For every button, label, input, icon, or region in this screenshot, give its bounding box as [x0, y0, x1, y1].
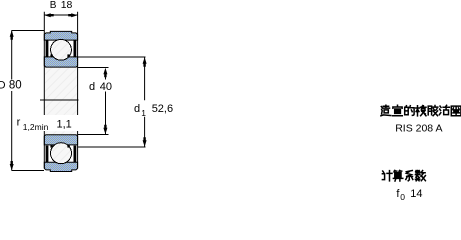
seal left bottom — [46, 146, 49, 163]
svg-text:D: D — [0, 80, 6, 92]
char 胶 — [428, 106, 438, 116]
svg-text:r: r — [17, 116, 21, 128]
outer ring top — [44, 31, 77, 40]
svg-text:14: 14 — [410, 188, 422, 200]
outer ring bottom — [44, 162, 77, 171]
char 系 — [406, 171, 413, 181]
chinese heading line 2: 计算系数 (drawn strokes) — [382, 170, 425, 181]
chinese heading line 1 (drawn strokes) — [381, 105, 461, 116]
dimension d1: top leader — [78, 56, 146, 58]
char 圈 (clipped at right edge) — [451, 106, 461, 116]
right face / bore silhouette line — [77, 12, 79, 168]
seal right top — [74, 40, 77, 57]
svg-text:B: B — [50, 0, 57, 11]
svg-text:RIS 208 A: RIS 208 A — [395, 123, 442, 135]
shaft (bore) region between sections — [45, 67, 77, 134]
dimension d: line to down arrow — [104, 92, 106, 135]
char 算 — [393, 170, 402, 181]
dimension d: top leader — [78, 67, 109, 69]
ball bottom — [51, 143, 72, 164]
ball top — [51, 39, 72, 60]
seal groove notch right bottom — [67, 145, 69, 148]
seal groove notch left top — [50, 54, 52, 57]
dimension D: top arrow — [10, 30, 14, 39]
dimension D: vertical line — [11, 30, 13, 170]
dimension d1: vertical line — [144, 57, 146, 146]
dimension D: top leader — [12, 29, 44, 31]
char 计 — [382, 171, 392, 181]
svg-text:40: 40 — [100, 81, 112, 93]
wire: centerline of shaft — [40, 99, 78, 101]
char 橡 — [416, 106, 426, 116]
dimension d: up arrow — [103, 68, 107, 77]
dimension B: left arrow — [44, 13, 53, 17]
svg-text:d: d — [89, 81, 95, 93]
char 适 — [381, 105, 391, 116]
char 的 — [405, 106, 414, 116]
svg-text:d: d — [134, 103, 140, 115]
dimension B: line — [44, 14, 77, 16]
svg-text:1,2min: 1,2min — [23, 122, 49, 132]
left face / bore silhouette line — [43, 12, 45, 168]
inner ring top — [44, 57, 77, 67]
svg-text:80: 80 — [9, 80, 22, 92]
svg-text:1: 1 — [141, 108, 146, 118]
svg-text:1,1: 1,1 — [57, 118, 72, 130]
seal right bottom — [74, 146, 77, 163]
char 活 — [439, 105, 449, 114]
seal groove notch left bottom — [50, 145, 52, 148]
seal left top — [46, 40, 49, 57]
char 宜 — [393, 105, 403, 115]
dimension D: bottom arrow — [10, 161, 14, 170]
svg-text:18: 18 — [61, 0, 73, 11]
dimension d1: bottom leader — [78, 146, 146, 148]
seal groove notch right top — [67, 54, 69, 57]
char 数 — [415, 171, 425, 181]
dimension d1: top arrow — [143, 57, 147, 66]
dimension d: bottom leader — [78, 133, 109, 135]
dimension d1: bottom arrow — [143, 137, 147, 146]
svg-text:52,6: 52,6 — [152, 103, 173, 115]
svg-text:0: 0 — [400, 192, 405, 201]
dimension B: right arrow — [68, 13, 77, 17]
dimension d: down arrow — [103, 125, 107, 134]
dimension D: bottom leader — [12, 169, 44, 171]
inner ring bottom — [44, 135, 77, 145]
